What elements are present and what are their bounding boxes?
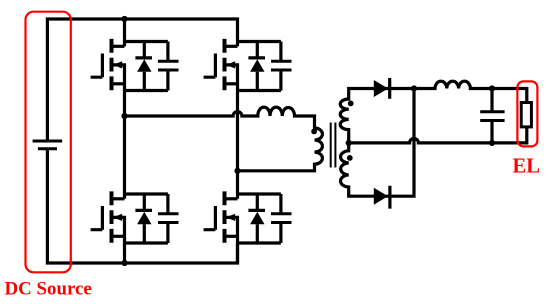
- svg-text:DC Source: DC Source: [5, 279, 92, 300]
- svg-text:EL: EL: [513, 156, 540, 178]
